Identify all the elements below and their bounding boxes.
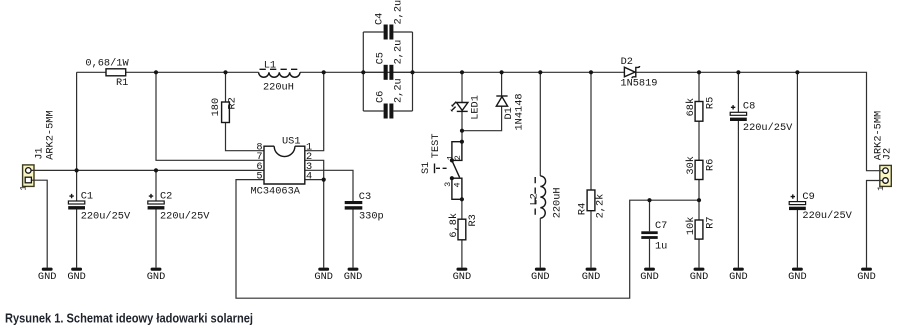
- svg-text:R5: R5: [704, 97, 716, 109]
- ground R4: [582, 268, 601, 283]
- junction node-C1: [75, 168, 79, 172]
- svg-text:R3: R3: [467, 214, 479, 226]
- resistor R2: [210, 97, 238, 122]
- svg-text:30k: 30k: [685, 156, 697, 175]
- svg-text:C3: C3: [359, 191, 371, 203]
- wire feedback node to R7 top: [698, 200, 700, 220]
- svg-text:GND: GND: [344, 271, 363, 283]
- ground C3: [344, 268, 363, 283]
- ground C9: [788, 268, 807, 283]
- capacitor C8: [730, 101, 793, 135]
- resistor R4: [576, 190, 606, 218]
- junction S1 lever pivot: [450, 158, 454, 162]
- svg-text:GND: GND: [38, 271, 57, 283]
- svg-text:2: 2: [453, 155, 463, 160]
- svg-text:C5: C5: [375, 52, 387, 64]
- ground L2: [531, 268, 550, 283]
- wire J2 pin2 to GND: [867, 181, 880, 268]
- svg-text:1u: 1u: [655, 241, 667, 253]
- wire R4 bottom to GND: [590, 211, 592, 268]
- junction feedback-C7: [647, 198, 651, 202]
- wire R7 bottom to GND: [698, 239, 700, 268]
- junction rail-C2 branch: [154, 70, 158, 74]
- svg-text:ARK2-5MM: ARK2-5MM: [44, 110, 56, 159]
- junction feedback-R6R7: [697, 198, 701, 202]
- svg-text:C4: C4: [374, 13, 386, 25]
- svg-text:C1: C1: [81, 190, 93, 202]
- ground C1: [67, 268, 86, 283]
- svg-text:C9: C9: [802, 191, 814, 203]
- junction rail-C8: [736, 70, 740, 74]
- svg-text:220uH: 220uH: [552, 187, 564, 218]
- wire C2 top lead: [155, 170, 157, 201]
- svg-text:TEST: TEST: [430, 133, 442, 158]
- resistor R7: [685, 216, 717, 239]
- capacitor C4: [363, 0, 412, 40]
- svg-text:220u/25V: 220u/25V: [81, 211, 131, 223]
- svg-text:1: 1: [876, 186, 886, 191]
- svg-text:3: 3: [443, 182, 453, 187]
- svg-text:J2: J2: [881, 148, 893, 160]
- resistor R3: [448, 213, 479, 240]
- resistor R6: [685, 156, 717, 179]
- junction pin4-GND branch: [322, 178, 326, 182]
- diode D2 1N5819 schottky: [620, 56, 657, 89]
- svg-text:68k: 68k: [685, 98, 697, 117]
- junction rail-R5: [697, 70, 701, 74]
- svg-text:L2: L2: [529, 193, 541, 205]
- junction rail-capblock right: [410, 70, 414, 74]
- svg-text:C8: C8: [743, 101, 755, 113]
- wire C2 bottom to GND: [155, 210, 157, 268]
- wire C7 bottom to GND: [649, 239, 651, 268]
- svg-text:D2: D2: [621, 56, 633, 68]
- svg-text:R7: R7: [704, 216, 716, 228]
- svg-text:GND: GND: [788, 271, 807, 283]
- junction S1 lever contact: [450, 176, 454, 180]
- wire rail to US1 pin7 via x=156: [156, 72, 264, 160]
- ground C7: [640, 268, 659, 283]
- svg-text:220u/25V: 220u/25V: [743, 122, 793, 134]
- svg-text:6,8k: 6,8k: [448, 213, 460, 238]
- capacitor C2: [148, 190, 211, 222]
- junction node A LED1-D1: [460, 129, 464, 133]
- svg-text:S1: S1: [420, 162, 432, 174]
- wire R6 bottom to feedback node: [698, 180, 700, 201]
- svg-text:MC34063A: MC34063A: [251, 186, 301, 198]
- wire J1 pin2 to GND: [34, 180, 47, 268]
- junction rail-LED1: [460, 70, 464, 74]
- wire US1 pin3 to C3: [305, 170, 353, 201]
- junction rail-L2: [538, 70, 542, 74]
- svg-text:GND: GND: [147, 271, 166, 283]
- junction S1 top input: [460, 140, 464, 144]
- svg-text:5: 5: [256, 170, 262, 182]
- wire left vertical from rail down to main node and C1: [76, 72, 78, 201]
- svg-text:GND: GND: [582, 271, 601, 283]
- IC US1 MC34063A: [251, 136, 313, 198]
- svg-text:L1: L1: [264, 60, 276, 72]
- svg-text:GND: GND: [453, 271, 472, 283]
- wire D2 cathode to right corner down to J2 pin1: [636, 72, 880, 170]
- ground C8: [729, 268, 748, 283]
- wire rail to C8 top: [737, 72, 739, 112]
- wire D1 anode down and left to node A: [462, 106, 502, 131]
- svg-text:10k: 10k: [685, 217, 697, 236]
- junction rail-D1: [500, 70, 504, 74]
- junction node-C2: [154, 168, 158, 172]
- svg-text:220u/25V: 220u/25V: [160, 211, 210, 223]
- svg-text:2,2u: 2,2u: [393, 0, 405, 25]
- svg-text:R6: R6: [704, 159, 716, 171]
- switch actuator: [434, 164, 436, 174]
- svg-text:GND: GND: [729, 271, 748, 283]
- svg-text:C7: C7: [655, 220, 667, 232]
- junction rail-C9: [795, 70, 799, 74]
- svg-text:1: 1: [19, 185, 29, 190]
- capacitor C6: [363, 78, 412, 118]
- svg-text:GND: GND: [640, 271, 659, 283]
- svg-text:2,2k: 2,2k: [595, 194, 607, 219]
- wire R1 to L1: [126, 71, 259, 73]
- connector J2 ARK2-5MM: [873, 111, 894, 191]
- wire rail to R4 top: [590, 72, 592, 190]
- inductor L2: [529, 176, 564, 218]
- wire L2 bottom to GND: [539, 218, 541, 268]
- svg-text:0,68/1W: 0,68/1W: [85, 58, 129, 70]
- svg-text:180: 180: [210, 98, 222, 117]
- capacitor C9: [789, 191, 853, 222]
- wire R2 bottom to US1 pin8: [226, 123, 265, 151]
- wire main node rail J1 pin1 to US1 pin6: [31, 169, 264, 171]
- svg-text:GND: GND: [531, 271, 550, 283]
- wire US1 pin5 feedback loop: [236, 180, 699, 299]
- diode D1 1N4148: [496, 93, 525, 130]
- svg-text:1N4148: 1N4148: [513, 93, 525, 130]
- switch S1 TEST: [420, 133, 463, 199]
- switch lever: [452, 160, 460, 177]
- wire rail to L2 top: [539, 72, 541, 176]
- capacitor C3: [345, 191, 384, 223]
- svg-text:4: 4: [453, 182, 463, 187]
- wire S1 output to R3: [461, 199, 463, 219]
- ground C2: [147, 268, 166, 283]
- svg-text:GND: GND: [690, 271, 709, 283]
- svg-text:C2: C2: [160, 190, 172, 202]
- svg-text:4: 4: [306, 170, 312, 182]
- capacitor C7: [641, 220, 667, 253]
- capacitor C5: [363, 40, 412, 80]
- svg-text:R4: R4: [576, 203, 588, 215]
- wire LED1 cathode to node A: [461, 112, 463, 142]
- junction rail-R4: [589, 70, 593, 74]
- wire rail to C9 top: [796, 72, 798, 201]
- ground J2: [857, 268, 876, 283]
- wire C8 bottom to GND: [737, 121, 739, 268]
- svg-text:2,2u: 2,2u: [393, 78, 405, 103]
- svg-text:R1: R1: [116, 77, 128, 89]
- svg-text:R2: R2: [227, 97, 239, 109]
- wire rail to R2 top: [225, 72, 227, 102]
- wire R3 bottom to GND: [461, 240, 463, 268]
- wire R5 bottom to R6 top: [698, 121, 700, 160]
- wire US1 pin4 stub: [305, 179, 324, 181]
- svg-text:Rysunek 1. Schemat ideowy łado: Rysunek 1. Schemat ideowy ładowarki sola…: [5, 310, 253, 325]
- svg-text:GND: GND: [67, 271, 86, 283]
- wire C7 lead down: [649, 200, 651, 231]
- wire C1 bottom to GND: [76, 210, 78, 268]
- ground J1: [38, 268, 57, 283]
- wire cap block left rail: [362, 32, 364, 111]
- resistor R5: [685, 97, 717, 121]
- wire rail to R5 top: [698, 72, 700, 101]
- wire rail to LED1 top: [461, 72, 463, 102]
- wire cap block right rail: [412, 32, 414, 111]
- svg-text:US1: US1: [282, 136, 301, 148]
- resistor R1: [85, 58, 129, 90]
- svg-text:GND: GND: [314, 271, 333, 283]
- LED LED1: [450, 95, 481, 120]
- svg-text:1N5819: 1N5819: [620, 77, 657, 89]
- junction rail-R2: [223, 70, 227, 74]
- svg-text:LED1: LED1: [470, 95, 482, 120]
- capacitor C1: [68, 190, 131, 222]
- svg-text:220uH: 220uH: [263, 82, 294, 94]
- wire US1 pin2 to GND with pin4 junction: [305, 160, 324, 267]
- ground R3: [453, 268, 472, 283]
- svg-text:GND: GND: [857, 271, 876, 283]
- junction S1 output: [460, 197, 464, 201]
- svg-text:330p: 330p: [359, 211, 384, 223]
- inductor L1: [259, 60, 300, 94]
- junction rail-pin1: [322, 70, 326, 74]
- wire D1 cathode to rail: [501, 72, 503, 96]
- wire C3 bottom to GND: [352, 210, 354, 268]
- wire US1 pin1 to rail: [305, 72, 324, 150]
- wire L1 to D2 anode: [300, 71, 624, 73]
- svg-text:2,2u: 2,2u: [393, 40, 405, 65]
- wire C9 bottom to GND: [796, 210, 798, 268]
- ground US1: [314, 268, 333, 283]
- wire top rail left segment to R1: [77, 71, 106, 73]
- svg-text:C6: C6: [375, 91, 387, 103]
- svg-text:220u/25V: 220u/25V: [802, 210, 852, 222]
- ground R7: [690, 268, 709, 283]
- connector J1 ARK2-5MM: [19, 110, 57, 190]
- junction rail-capblock left: [361, 70, 365, 74]
